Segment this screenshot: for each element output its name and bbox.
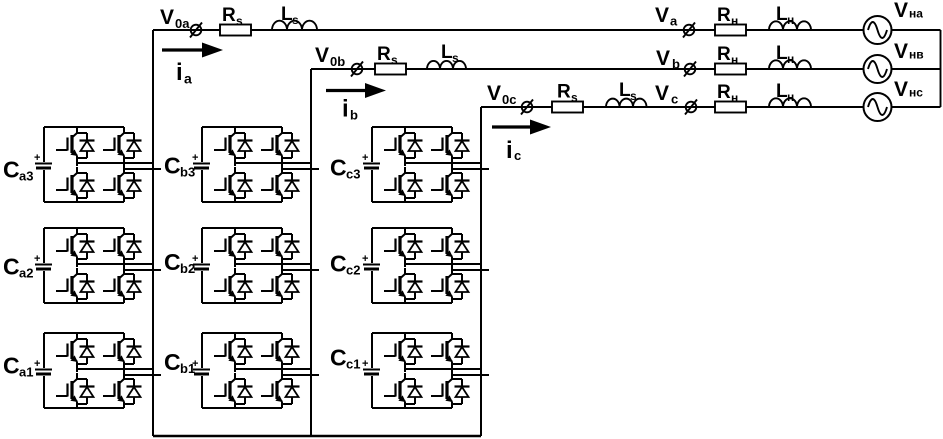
IGBT+diode a2 bottom-right [103, 268, 142, 303]
wire: left rail cell c3 [371, 127, 373, 162]
IGBT+diode b1 bottom-right [261, 373, 300, 408]
svg-text:C: C [3, 254, 20, 280]
node Vc [686, 102, 697, 113]
svg-text:+: + [362, 152, 368, 164]
svg-text:н: н [787, 13, 794, 27]
svg-text:C: C [164, 249, 181, 275]
resistor RH (phase b) [715, 64, 746, 75]
wire: phase a source to right edge [892, 29, 941, 31]
svg-text:V: V [894, 78, 908, 101]
svg-text:C: C [164, 153, 181, 179]
wire: right leg midpoint stub [452, 368, 489, 375]
wire: left leg midpoint to bus [405, 162, 481, 166]
H-bridge cell c3 [362, 127, 489, 202]
svg-text:V: V [655, 4, 669, 27]
wire: phase c source to right edge [892, 106, 941, 108]
wire: bottom rail cell a3 [44, 201, 124, 203]
svg-text:R: R [557, 82, 571, 103]
node Vb [685, 64, 696, 75]
wire: right leg midpoint stub [282, 263, 319, 270]
svg-text:V: V [656, 47, 670, 70]
wire: right leg midpoint stub [452, 263, 489, 270]
IGBT+diode a1 bottom-left [56, 373, 95, 408]
svg-text:R: R [222, 5, 236, 26]
H-bridge cell c2 [362, 228, 489, 303]
svg-text:0b: 0b [330, 54, 345, 69]
wire: top rail cell a3 [44, 126, 124, 128]
wire: phase a line [153, 29, 863, 31]
node Va [684, 25, 695, 36]
IGBT+diode a1 top-right [103, 333, 142, 368]
svg-text:s: s [452, 51, 459, 65]
capacitor Ca2 [35, 264, 52, 266]
wire: left leg midpoint to bus [235, 368, 311, 372]
svg-text:s: s [292, 13, 299, 27]
wire: bottom rail cell c1 [372, 407, 452, 409]
wire: left rail cell a2 [43, 228, 45, 263]
wire: right leg midpoint stub [124, 263, 161, 270]
inductor LH (phase c) [769, 98, 811, 107]
IGBT+diode c3 bottom-right [431, 167, 470, 202]
current arrow ic [492, 125, 532, 128]
wire: phase b source to right edge [892, 68, 941, 70]
IGBT+diode b2 top-left [214, 228, 253, 263]
wire: bottom rail cell c2 [372, 302, 452, 304]
wire: phase c cascade bus [480, 107, 482, 436]
IGBT+diode b1 bottom-left [214, 373, 253, 408]
resistor Rs (phase c) [552, 102, 583, 113]
wire: phase b line [311, 68, 863, 70]
svg-text:+: + [34, 152, 40, 164]
svg-text:н: н [787, 52, 794, 66]
svg-text:i: i [176, 59, 183, 86]
wire: left leg midpoint to bus [77, 368, 153, 372]
svg-text:нв: нв [909, 48, 924, 62]
H-bridge cell b3 [192, 127, 319, 202]
svg-text:C: C [3, 157, 20, 183]
wire: left rail cell b2 [201, 228, 203, 263]
svg-text:нс: нс [909, 86, 923, 100]
IGBT+diode b2 bottom-left [214, 268, 253, 303]
wire: top rail cell a1 [44, 332, 124, 334]
wire: phase b cascade bus [310, 69, 312, 436]
svg-text:s: s [630, 89, 637, 103]
capacitor Cb3 [193, 163, 210, 165]
wire: bottom rail cell c3 [372, 201, 452, 203]
IGBT+diode c2 bottom-right [431, 268, 470, 303]
svg-text:i: i [342, 96, 349, 123]
svg-text:+: + [34, 358, 40, 370]
wire: phase a cascade bus [152, 30, 154, 436]
H-bridge cell a1 [34, 333, 161, 408]
svg-text:C: C [330, 345, 347, 371]
wire: left leg midpoint to bus [77, 263, 153, 267]
wire: top rail cell b2 [202, 227, 282, 229]
svg-text:+: + [34, 253, 40, 265]
IGBT+diode c3 bottom-left [384, 167, 423, 202]
inductor LH (phase b) [769, 60, 811, 69]
H-bridge cell c1 [362, 333, 489, 408]
wire: bottom return wire [153, 435, 481, 438]
wire: top rail cell a2 [44, 227, 124, 229]
svg-text:b: b [350, 108, 358, 123]
wire: left rail cell a1 [43, 333, 45, 368]
svg-text:a3: a3 [19, 169, 33, 184]
svg-text:н: н [731, 14, 738, 28]
wire: left leg midpoint to bus [405, 263, 481, 267]
IGBT+diode a1 bottom-right [103, 373, 142, 408]
capacitor Ca3 [35, 163, 52, 165]
inductor Ls (phase a) [272, 21, 317, 30]
IGBT+diode b3 top-right [261, 127, 300, 162]
IGBT+diode b1 top-right [261, 333, 300, 368]
inductor LH (phase a) [769, 21, 811, 30]
resistor Rs (phase b) [375, 64, 406, 75]
IGBT+diode c1 top-right [431, 333, 470, 368]
svg-text:R: R [377, 44, 391, 65]
svg-text:C: C [330, 155, 347, 181]
capacitor Cc2 [363, 264, 380, 266]
wire: right leg midpoint stub [124, 368, 161, 375]
IGBT+diode c3 top-right [431, 127, 470, 162]
node V0b [352, 64, 363, 75]
svg-text:b: b [672, 57, 680, 72]
svg-text:0c: 0c [502, 92, 516, 107]
svg-text:н: н [787, 90, 794, 104]
wire: right leg midpoint stub [452, 162, 489, 169]
current arrow ib [326, 89, 367, 92]
svg-text:R: R [717, 44, 731, 65]
resistor RH (phase a) [715, 25, 746, 36]
IGBT+diode c2 bottom-left [384, 268, 423, 303]
svg-text:V: V [160, 6, 174, 29]
capacitor Ca1 [35, 369, 52, 371]
resistor RH (phase c) [715, 102, 746, 113]
wire: left rail cell b3 [201, 127, 203, 162]
H-bridge cell a2 [34, 228, 161, 303]
H-bridge cell a3 [34, 127, 161, 202]
wire: top rail cell c2 [372, 227, 452, 229]
resistor Rs (phase a) [220, 25, 251, 36]
svg-text:b2: b2 [180, 261, 195, 276]
svg-text:+: + [362, 253, 368, 265]
svg-text:i: i [506, 137, 513, 164]
capacitor Cc1 [363, 369, 380, 371]
capacitor Cc3 [363, 163, 380, 165]
wire: right leg midpoint stub [282, 368, 319, 375]
IGBT+diode b1 top-left [214, 333, 253, 368]
wire: right leg midpoint stub [282, 162, 319, 169]
svg-text:C: C [3, 353, 20, 379]
svg-text:c3: c3 [346, 167, 360, 182]
IGBT+diode a3 bottom-left [56, 167, 95, 202]
wire: bottom rail cell b3 [202, 201, 282, 203]
svg-text:a: a [184, 71, 192, 87]
AC source Vna [864, 16, 892, 44]
inductor Ls (phase b) [427, 61, 466, 69]
svg-text:C: C [164, 349, 181, 375]
wire: top rail cell c1 [372, 332, 452, 334]
IGBT+diode a2 top-right [103, 228, 142, 263]
wire: left leg midpoint to bus [235, 263, 311, 267]
svg-text:V: V [894, 0, 908, 22]
H-bridge cell b1 [192, 333, 319, 408]
wire: left rail cell c1 [371, 333, 373, 368]
svg-text:V: V [315, 44, 329, 67]
svg-text:0a: 0a [175, 16, 190, 31]
svg-text:н: н [731, 53, 738, 67]
wire: phase c line [481, 106, 863, 108]
wire: left leg midpoint to bus [235, 162, 311, 166]
wire: left leg midpoint to bus [405, 368, 481, 372]
AC source Vnb [864, 55, 892, 83]
wire: bottom rail cell b1 [202, 407, 282, 409]
svg-text:c: c [671, 92, 678, 107]
svg-text:c: c [514, 148, 521, 163]
IGBT+diode c2 top-right [431, 228, 470, 263]
IGBT+diode a2 top-left [56, 228, 95, 263]
wire: top rail cell b3 [202, 126, 282, 128]
IGBT+diode c1 bottom-right [431, 373, 470, 408]
current arrow ia [162, 48, 204, 51]
inductor Ls (phase c) [606, 99, 647, 107]
node V0a [191, 25, 202, 36]
wire: right leg midpoint stub [124, 162, 161, 169]
IGBT+diode b3 bottom-right [261, 167, 300, 202]
wire: right edge vertical neutral [940, 30, 942, 107]
IGBT+diode b3 top-left [214, 127, 253, 162]
wire: bottom rail cell a2 [44, 302, 124, 304]
capacitor Cb1 [193, 369, 210, 371]
svg-text:+: + [362, 358, 368, 370]
svg-text:c2: c2 [346, 263, 360, 278]
IGBT+diode a3 bottom-right [103, 167, 142, 202]
wire: top rail cell c3 [372, 126, 452, 128]
IGBT+diode a2 bottom-left [56, 268, 95, 303]
svg-text:R: R [717, 82, 731, 103]
svg-text:+: + [192, 152, 198, 164]
IGBT+diode b2 top-right [261, 228, 300, 263]
svg-text:на: на [909, 7, 923, 21]
IGBT+diode a3 top-left [56, 127, 95, 162]
IGBT+diode c2 top-left [384, 228, 423, 263]
svg-text:a: a [670, 14, 678, 29]
svg-text:b3: b3 [180, 165, 195, 180]
wire: bottom rail cell a1 [44, 407, 124, 409]
svg-text:C: C [330, 251, 347, 277]
IGBT+diode b2 bottom-right [261, 268, 300, 303]
svg-text:V: V [487, 82, 501, 105]
svg-text:н: н [731, 91, 738, 105]
IGBT+diode b3 bottom-left [214, 167, 253, 202]
svg-text:c1: c1 [346, 357, 360, 372]
wire: left rail cell a3 [43, 127, 45, 162]
IGBT+diode a3 top-right [103, 127, 142, 162]
wire: left leg midpoint to bus [77, 162, 153, 166]
IGBT+diode c1 top-left [384, 333, 423, 368]
svg-text:V: V [894, 40, 908, 63]
svg-text:s: s [236, 14, 243, 28]
H-bridge cell b2 [192, 228, 319, 303]
svg-text:a2: a2 [19, 266, 33, 281]
IGBT+diode c3 top-left [384, 127, 423, 162]
node V0c [522, 102, 533, 113]
svg-text:R: R [717, 5, 731, 26]
wire: bottom rail cell b2 [202, 302, 282, 304]
svg-text:b1: b1 [180, 361, 195, 376]
AC source Vnc [864, 93, 892, 121]
wire: left rail cell c2 [371, 228, 373, 263]
wire: top rail cell b1 [202, 332, 282, 334]
svg-text:s: s [391, 53, 398, 67]
svg-text:V: V [655, 82, 669, 105]
svg-text:a1: a1 [19, 365, 33, 380]
capacitor Cb2 [193, 264, 210, 266]
wire: left rail cell b1 [201, 333, 203, 368]
IGBT+diode c1 bottom-left [384, 373, 423, 408]
svg-text:s: s [571, 91, 578, 105]
IGBT+diode a1 top-left [56, 333, 95, 368]
